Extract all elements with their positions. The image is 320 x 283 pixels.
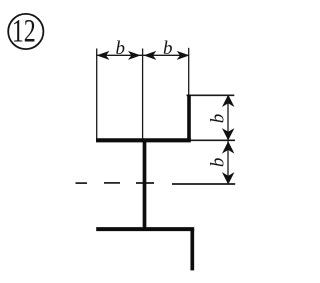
svg-text:b: b [116,38,126,59]
svg-text:b: b [163,38,173,59]
svg-text:b: b [208,114,229,124]
svg-text:12: 12 [12,13,36,50]
svg-text:b: b [208,158,229,168]
